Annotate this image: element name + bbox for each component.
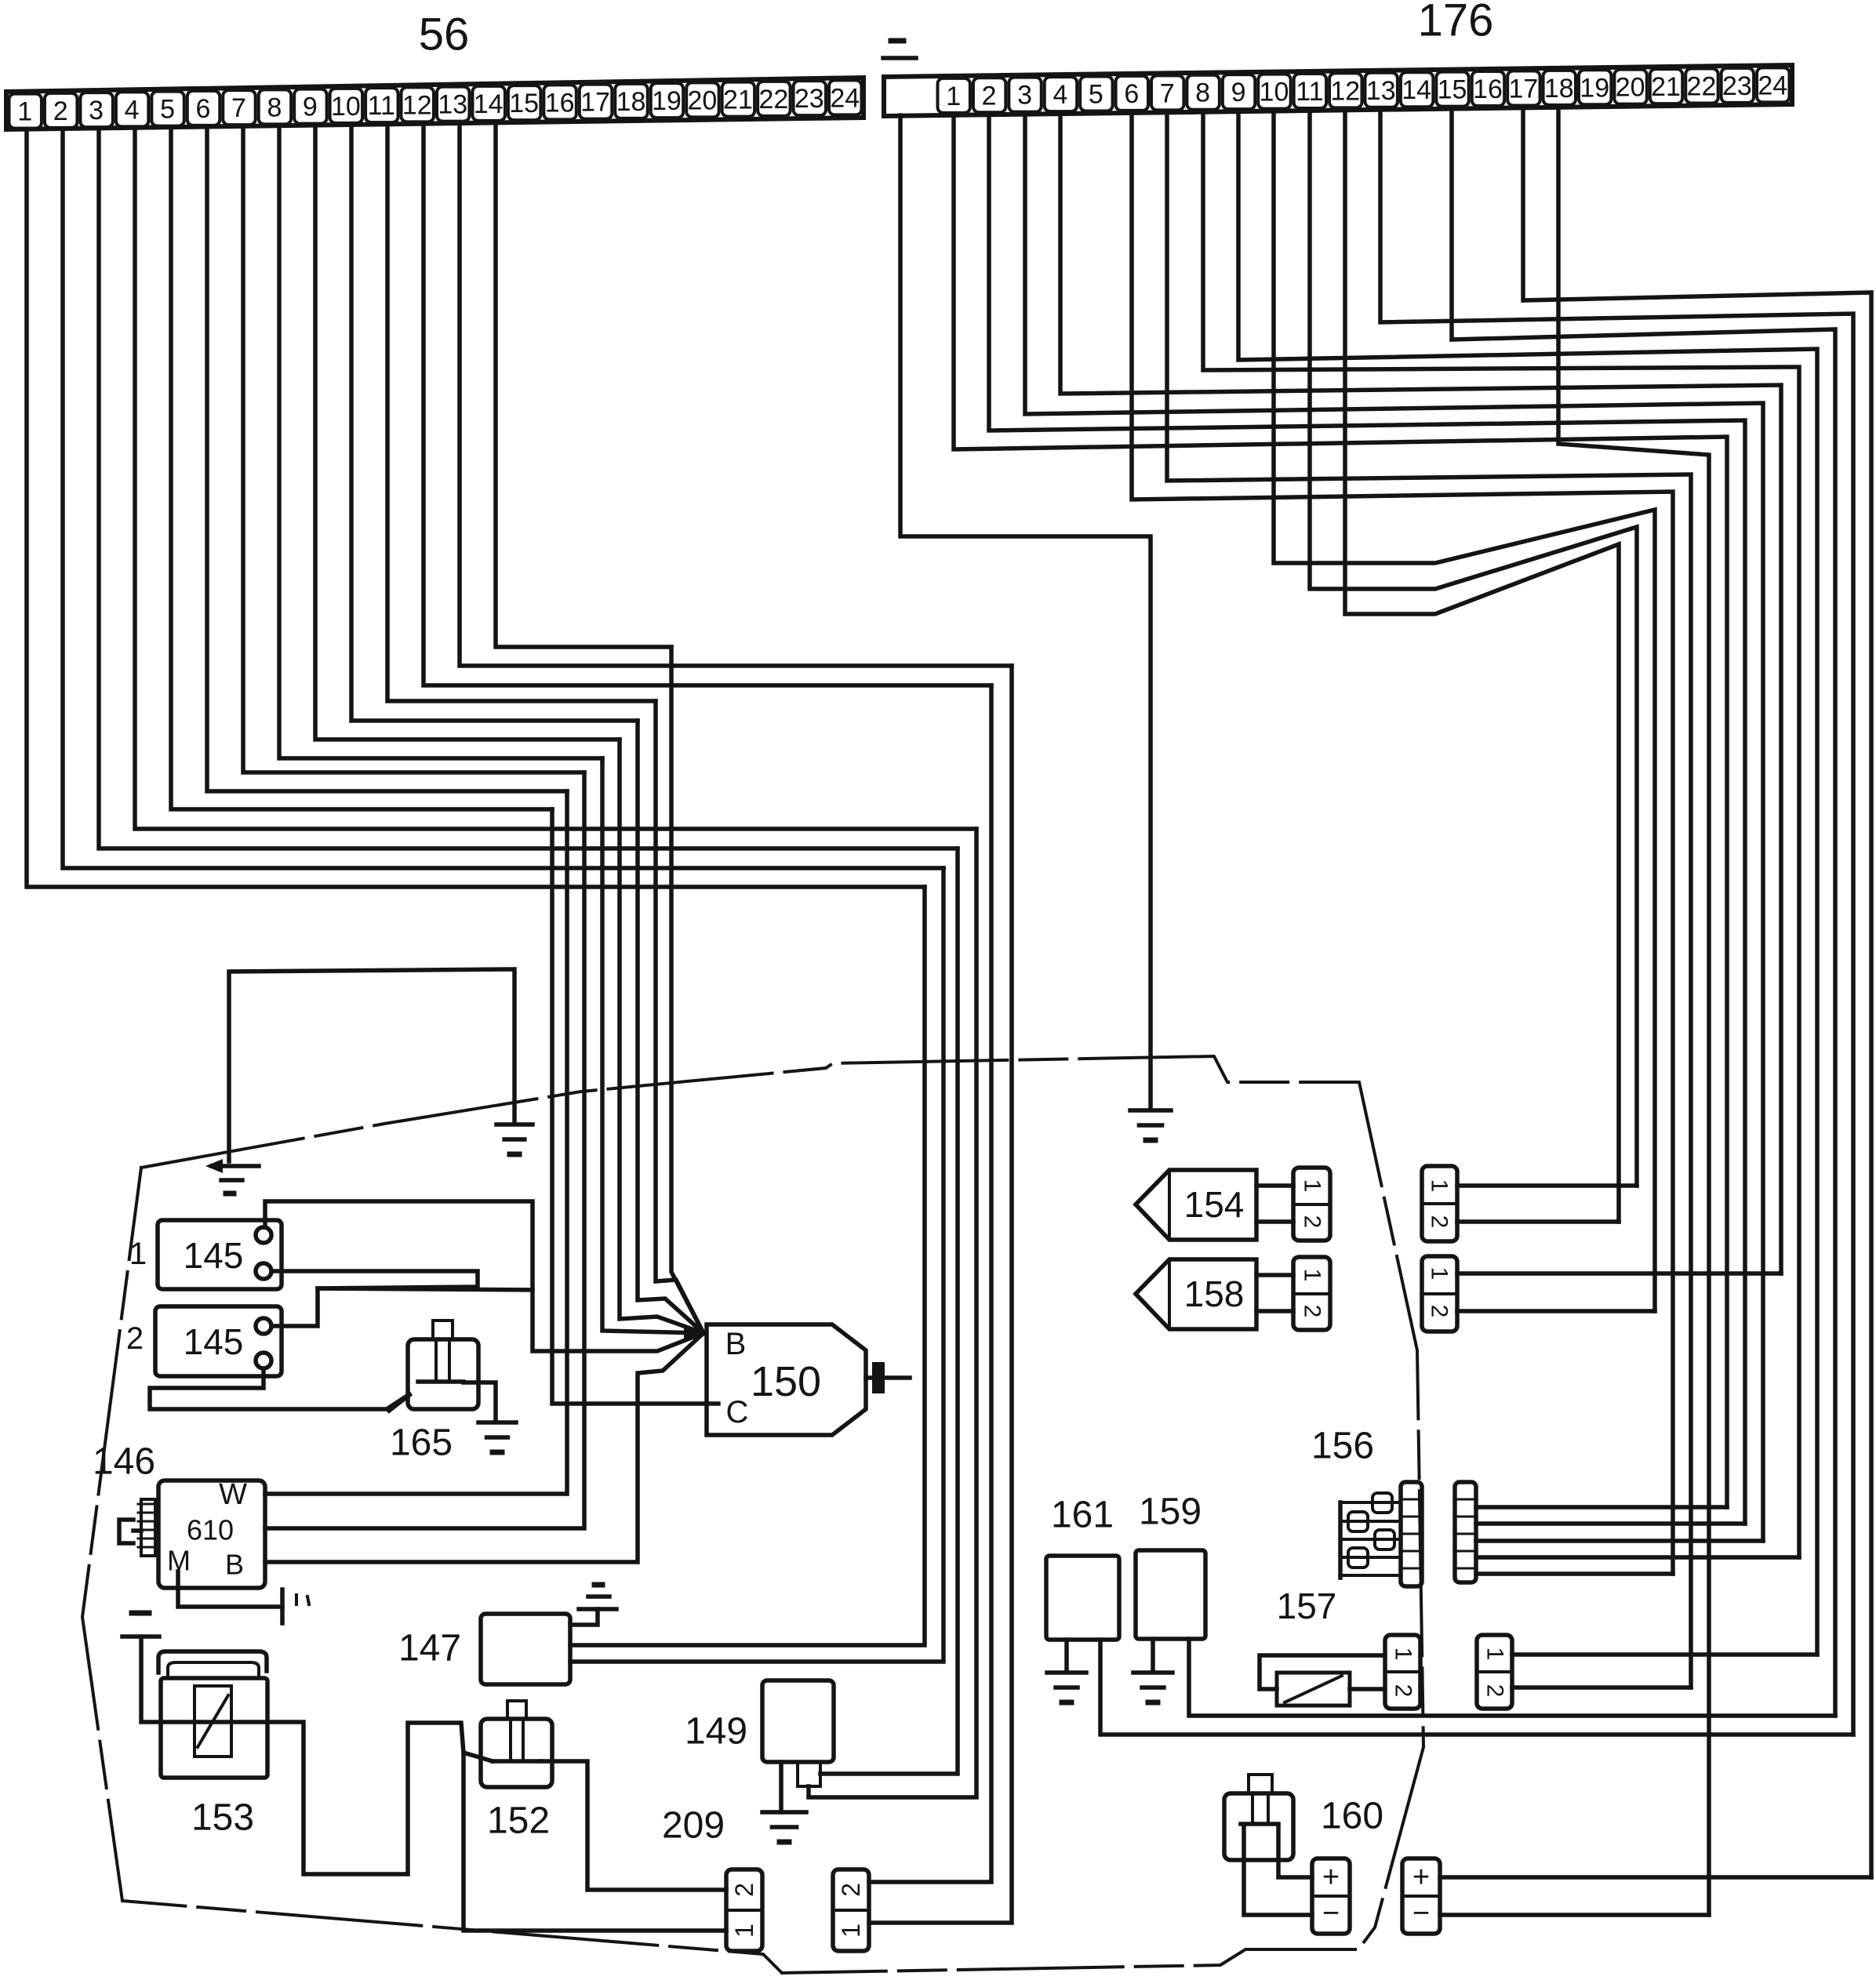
wire column 56-5 to 150 pin C — [552, 809, 718, 1404]
wire 56 pin 9 vertical+run — [315, 125, 620, 739]
svg-text:2: 2 — [1300, 1215, 1325, 1229]
wire 159 to ground — [1151, 1639, 1155, 1671]
svg-text:11: 11 — [368, 91, 395, 121]
svg-text:14: 14 — [1402, 75, 1431, 105]
plug 152 body — [481, 1719, 552, 1787]
svg-text:7: 7 — [1160, 78, 1175, 108]
unit 149 lower tab — [798, 1762, 820, 1786]
wire column 56-14 into node B — [671, 647, 703, 1333]
wire 56 pin 8 vertical+run — [279, 125, 602, 758]
svg-text:1: 1 — [1391, 1648, 1416, 1661]
wire 161 to ground — [1064, 1640, 1069, 1671]
svg-text:19: 19 — [652, 86, 682, 116]
svg-text:24: 24 — [1758, 71, 1787, 100]
svg-text:B: B — [725, 1327, 747, 1361]
svg-text:23: 23 — [1722, 71, 1752, 101]
svg-text:150: 150 — [751, 1358, 821, 1405]
svg-text:149: 149 — [685, 1711, 747, 1753]
wire 147 to ground — [570, 1609, 598, 1625]
wire 159 to column — [1189, 1639, 1835, 1716]
svg-text:2: 2 — [1427, 1215, 1452, 1229]
svg-text:152: 152 — [487, 1800, 550, 1842]
svg-text:1: 1 — [1427, 1179, 1452, 1193]
plug 160 prong — [1249, 1775, 1272, 1793]
capacitor stub right of 150 — [866, 1375, 910, 1380]
svg-text:22: 22 — [1687, 72, 1717, 102]
wire 56 pin 4 vertical+run — [135, 128, 976, 829]
node B junction dot — [684, 1324, 703, 1342]
chassis ground below 176 ground wire — [1130, 1108, 1171, 1113]
ground above 153 — [132, 1611, 149, 1616]
wire 56 pin 10 vertical+run — [351, 125, 638, 721]
ground above 147 — [579, 1607, 616, 1611]
wire column 56-3 to 149 — [820, 848, 958, 1774]
ground right of shield loop — [496, 1122, 533, 1127]
wire 152 right pin to 209-1 cell 2 — [541, 1761, 726, 1890]
wire column 56-12 to connector 209-2 cell 2 — [869, 685, 991, 1882]
wire 145-1 bottom chain to 145-2 top — [271, 1271, 478, 1326]
svg-text:2: 2 — [1482, 1684, 1508, 1698]
svg-text:8: 8 — [1195, 78, 1210, 108]
wire 158 mate cell1 to column — [1457, 1271, 1781, 1276]
wire 176 ground stub to chassis ground — [900, 115, 1151, 1109]
svg-text:21: 21 — [1651, 72, 1681, 102]
wire 158 mate cell2 to column — [1457, 1309, 1655, 1313]
solenoid 145-1 box — [158, 1220, 282, 1289]
wire column 56-4 to 149 lower — [809, 829, 976, 1797]
relay 153 hat bracket — [158, 1651, 267, 1673]
connector 156 right column — [1455, 1482, 1476, 1582]
connector at 158 — [1293, 1257, 1330, 1330]
wire 154 mate cell1 to column — [1457, 1183, 1637, 1188]
svg-text:2: 2 — [730, 1883, 758, 1897]
ground below 161 — [1047, 1670, 1086, 1675]
wire junction 145 chain to fan feeder — [318, 1288, 533, 1290]
plug 165 prong — [433, 1321, 453, 1339]
unit 147 box — [481, 1614, 570, 1684]
svg-text:21: 21 — [723, 85, 753, 115]
wire 56 pin 11 vertical+run — [387, 124, 656, 701]
threaded shaft symbol left of 146 — [141, 1499, 155, 1556]
ground symbol at connector 176 left stub — [891, 38, 903, 44]
svg-text:145: 145 — [184, 1235, 244, 1276]
svg-text:24: 24 — [830, 83, 860, 113]
svg-text:10: 10 — [331, 92, 361, 122]
wire 165 right pin to ground — [464, 1382, 496, 1421]
svg-text:2: 2 — [1391, 1684, 1416, 1698]
svg-text:176: 176 — [1418, 0, 1494, 46]
wire column 56-1 to 147 upper — [570, 887, 925, 1645]
wire column 56-8 into node B — [602, 758, 703, 1333]
svg-text:18: 18 — [616, 87, 646, 117]
svg-text:17: 17 — [1508, 74, 1538, 104]
svg-text:3: 3 — [89, 96, 104, 125]
svg-text:18: 18 — [1544, 74, 1574, 104]
unit 161 box — [1046, 1556, 1119, 1640]
svg-text:20: 20 — [1616, 73, 1645, 103]
svg-text:159: 159 — [1139, 1491, 1202, 1533]
wire column 56-9 into node B — [620, 739, 703, 1333]
wire 157 mate cell1 to column — [1512, 1652, 1817, 1657]
wire 157 left loop to connector cell 1 — [1260, 1655, 1385, 1689]
wire 161 to column — [1100, 1640, 1853, 1735]
wire 176 pin 7 to right column x=2156 — [1167, 112, 1691, 1688]
wire 176 pin 4 to right column x=2271 — [1060, 114, 1781, 1273]
pin circles 145-2 — [256, 1318, 271, 1334]
connector at 160 plus minus — [1312, 1858, 1350, 1934]
wire ground to 153 and onward to 152 — [141, 1637, 493, 1874]
svg-text:19: 19 — [1580, 73, 1609, 103]
wire 176 pin 3 to right column x=2248 — [1025, 114, 1763, 1541]
ground below 159 — [1133, 1670, 1172, 1675]
svg-text:156: 156 — [1311, 1426, 1374, 1467]
svg-text:158: 158 — [1184, 1273, 1245, 1314]
svg-text:1: 1 — [837, 1924, 865, 1938]
wire 157 right to connector cell 2 — [1350, 1687, 1385, 1691]
svg-text:15: 15 — [509, 89, 539, 118]
svg-text:13: 13 — [438, 90, 467, 120]
svg-text:7: 7 — [231, 93, 246, 123]
svg-text:2: 2 — [53, 96, 68, 126]
plug 160 body — [1224, 1793, 1293, 1860]
svg-text:6: 6 — [196, 94, 211, 124]
wire 176 pin 15 to right column x=2340 — [1452, 109, 1835, 1716]
svg-text:−: − — [1412, 1897, 1430, 1930]
connector 156 plug rack — [1338, 1502, 1343, 1578]
svg-text:16: 16 — [1473, 74, 1503, 104]
svg-text:610: 610 — [187, 1514, 234, 1546]
svg-text:165: 165 — [390, 1422, 453, 1464]
stubs 154 to connector — [1256, 1183, 1293, 1188]
wire 56 pin 7 vertical+run — [243, 126, 584, 772]
svg-text:−: − — [1322, 1897, 1340, 1930]
wire 176 pin 11 to right column x=2087 — [1310, 111, 1637, 1186]
switch 157 box with slash — [1277, 1673, 1350, 1706]
svg-text:1: 1 — [946, 82, 961, 111]
connector mate of 157 — [1477, 1635, 1512, 1709]
wire 56 pin 12 vertical+run — [424, 124, 991, 685]
svg-text:9: 9 — [303, 93, 318, 122]
connector mate of 158 — [1422, 1256, 1457, 1332]
unit 149 box — [762, 1680, 834, 1762]
svg-text:1: 1 — [1300, 1179, 1325, 1193]
pin circles 145-1 — [256, 1227, 271, 1243]
plug 152 prong — [507, 1701, 526, 1719]
svg-text:161: 161 — [1051, 1495, 1114, 1536]
wire shield loop above 145 — [229, 969, 514, 1161]
svg-text:12: 12 — [402, 90, 432, 120]
wire 149 to ground — [779, 1762, 783, 1812]
svg-text:8: 8 — [267, 93, 282, 122]
svg-text:2: 2 — [982, 81, 997, 111]
wire 56 pin 5 vertical+run — [171, 127, 552, 809]
svg-text:15: 15 — [1438, 75, 1467, 105]
relay 153 body — [161, 1678, 267, 1778]
svg-text:3: 3 — [1017, 81, 1032, 111]
svg-text:2: 2 — [126, 1321, 144, 1356]
svg-text:154: 154 — [1184, 1184, 1245, 1225]
svg-text:+: + — [1322, 1861, 1340, 1894]
wires 156 to columns — [1476, 1505, 1727, 1510]
svg-text:+: + — [1412, 1861, 1430, 1894]
svg-text:17: 17 — [580, 88, 610, 118]
wire 176 pin 10 to right column x=2110 — [1274, 111, 1655, 1311]
wire 176 pin 8 to right column x=2294 — [1203, 112, 1799, 1557]
wire 56 pin 1 vertical+run — [27, 129, 925, 887]
solenoid 145-2 box — [155, 1306, 282, 1376]
connector at 154 — [1293, 1168, 1330, 1241]
wire 176 pin 12 to right column x=2064 — [1345, 110, 1619, 1222]
connector 56 outer bar — [6, 78, 863, 129]
svg-text:5: 5 — [160, 95, 175, 125]
svg-text:12: 12 — [1330, 76, 1360, 106]
svg-text:22: 22 — [758, 85, 788, 114]
connector 176 outer bar — [884, 65, 1792, 116]
wire column 56-11 into node B — [656, 701, 703, 1333]
svg-text:56: 56 — [419, 9, 470, 60]
relay 153 coil with slash — [195, 1686, 231, 1757]
svg-text:9: 9 — [1231, 78, 1246, 107]
tick marks near 146 M terminal — [295, 1595, 298, 1604]
svg-text:145: 145 — [184, 1321, 244, 1362]
svg-text:5: 5 — [1089, 80, 1103, 110]
svg-text:160: 160 — [1321, 1796, 1383, 1837]
wire 56 pin 6 vertical+run — [207, 126, 567, 791]
ground below 149 — [762, 1810, 806, 1815]
svg-text:2: 2 — [837, 1883, 865, 1897]
wire 160 mate minus to column — [1440, 1913, 1709, 1917]
wire 176 pin 17 to right column x=2386 — [1523, 107, 1871, 1877]
wire 176 pin 18 to right column x=2179 — [1558, 107, 1709, 1915]
wire 146 M to terminal bar — [178, 1571, 282, 1607]
wire 56 pin 3 vertical+run — [99, 128, 958, 848]
svg-text:1: 1 — [1427, 1267, 1452, 1281]
unit 159 box — [1136, 1550, 1205, 1639]
connector 209-1 — [726, 1869, 762, 1951]
svg-text:2: 2 — [1427, 1305, 1452, 1318]
svg-text:W: W — [219, 1478, 247, 1511]
ground below 165 — [478, 1420, 516, 1425]
svg-text:11: 11 — [1296, 77, 1323, 107]
wire 145-2 bottom to plug 165 — [150, 1368, 409, 1409]
wire column 56-6 to 146 pin W — [265, 791, 567, 1494]
stubs 158 to connector — [1256, 1273, 1293, 1277]
wire column 56-13 to connector 209-2 cell 1 — [869, 666, 1012, 1923]
wire 176 pin 13 to right column x=2363 — [1380, 110, 1853, 1735]
wire 56 pin 13 vertical+run — [460, 123, 1012, 666]
svg-text:6: 6 — [1124, 79, 1139, 109]
wire 176 pin 6 to right column x=2133 — [1132, 113, 1673, 1574]
svg-text:1: 1 — [730, 1924, 758, 1938]
wire 176 pin 1 to right column x=2202 — [954, 115, 1727, 1507]
svg-text:14: 14 — [474, 89, 504, 119]
wire 145-1 top pin to node B — [265, 1201, 703, 1351]
wire 160 left pin to minus cell — [1244, 1826, 1312, 1915]
svg-text:1: 1 — [17, 97, 32, 127]
connector mate of 160 — [1402, 1858, 1440, 1934]
wire 176 pin 2 to right column x=2225 — [989, 114, 1745, 1524]
svg-text:157: 157 — [1277, 1586, 1337, 1626]
svg-text:B: B — [225, 1549, 244, 1581]
svg-text:20: 20 — [688, 85, 718, 115]
wire column 56-7 to 146 pin 610 — [265, 772, 584, 1528]
svg-text:209: 209 — [662, 1805, 725, 1847]
connector 56 cells 1-24 — [9, 94, 42, 129]
wire 176 pin 9 to right column x=2317 — [1238, 111, 1817, 1655]
svg-text:16: 16 — [545, 88, 575, 118]
svg-text:4: 4 — [1053, 80, 1067, 110]
connector 209-2 — [833, 1869, 869, 1951]
svg-text:13: 13 — [1366, 76, 1396, 106]
svg-text:153: 153 — [191, 1797, 254, 1839]
wire 160 mate plus to column — [1440, 1875, 1871, 1880]
svg-text:2: 2 — [1300, 1305, 1325, 1318]
wire 56 pin 14 vertical+run — [496, 122, 671, 647]
wire 146 B pin rising to node B — [265, 1333, 703, 1562]
connector 156 left column — [1401, 1482, 1422, 1586]
wire 154 mate cell2 to column — [1457, 1219, 1619, 1224]
machine enclosure dash-dot boundary — [82, 1056, 1423, 1973]
connector at 157 — [1385, 1635, 1420, 1709]
svg-text:10: 10 — [1260, 78, 1289, 107]
ground left of shield loop — [205, 1159, 223, 1173]
svg-text:147: 147 — [398, 1628, 461, 1669]
svg-text:C: C — [726, 1395, 749, 1430]
wire 152 branch down to 209-1 cell 1 — [464, 1753, 726, 1931]
svg-text:1: 1 — [1482, 1648, 1508, 1661]
svg-text:4: 4 — [125, 95, 140, 125]
plug 165 body — [408, 1339, 478, 1409]
wire 157 mate cell2 to column — [1512, 1685, 1691, 1690]
plug symbol on 146 shaft — [119, 1520, 133, 1543]
sensor 158 arrow body — [1136, 1259, 1256, 1329]
svg-text:23: 23 — [794, 84, 824, 114]
wire column 56-10 into node B — [638, 721, 703, 1333]
wire column 56-2 to 147 lower — [570, 868, 943, 1662]
wire 160 right pin to plus cell — [1278, 1826, 1312, 1877]
connector body 150 — [707, 1324, 866, 1435]
connector mate of 154 — [1422, 1166, 1457, 1241]
wire 165 left entry diagonal — [389, 1395, 409, 1411]
sensor 154 arrow body — [1136, 1170, 1256, 1240]
motor unit 146 box — [158, 1480, 265, 1588]
wire 56 pin 2 vertical+run — [63, 129, 943, 868]
svg-text:1: 1 — [1300, 1269, 1325, 1282]
connector 176 cells 1-24 — [938, 78, 970, 113]
